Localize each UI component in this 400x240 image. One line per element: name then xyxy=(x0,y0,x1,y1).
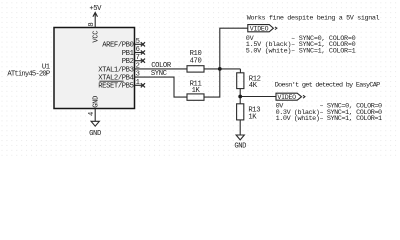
no-connect x pin 6 xyxy=(141,50,145,54)
svg-text:4: 4 xyxy=(88,112,96,116)
chevron after VIDEO (bottom) xyxy=(303,95,305,98)
wire R11 to node A riser xyxy=(204,69,220,97)
svg-text:8: 8 xyxy=(88,23,96,27)
pin 4 GND vertical pin wire xyxy=(94,109,96,122)
svg-text:XTAL1/PB3: XTAL1/PB3 xyxy=(98,66,133,74)
svg-text:Doesn't get detected by EasyCA: Doesn't get detected by EasyCAP xyxy=(275,81,380,89)
chevron after VIDEO (top) xyxy=(275,27,277,30)
wire node A up to VIDEO label xyxy=(220,28,248,69)
svg-text:GND: GND xyxy=(92,96,100,108)
IC U1 ATtiny45-20P body box xyxy=(54,28,135,109)
pin 6 PB1 xyxy=(135,52,143,54)
svg-text:PB2: PB2 xyxy=(122,58,134,66)
pin 7 PB2 xyxy=(135,60,143,62)
svg-text:7: 7 xyxy=(136,54,140,62)
wire R12 to node B xyxy=(239,89,241,97)
svg-text:VIDEO: VIDEO xyxy=(250,25,269,32)
svg-text:COLOR: COLOR xyxy=(151,62,172,70)
no-connect x pin 7 xyxy=(141,59,145,63)
wire SYNC net: pin 3 right then down xyxy=(135,77,188,97)
svg-text:5.0V (white)– SYNC=1, COLOR=1: 5.0V (white)– SYNC=1, COLOR=1 xyxy=(246,47,356,55)
ground symbol (IC) xyxy=(91,121,99,126)
svg-text:Works fine despite being a 5V: Works fine despite being a 5V signal xyxy=(247,15,380,23)
junction node A xyxy=(218,67,222,71)
pin 1 RESET/PB5 xyxy=(135,84,143,86)
pin 8 VCC vertical pin wire xyxy=(94,16,96,28)
wire R13 to ground xyxy=(239,120,241,135)
svg-text:1: 1 xyxy=(136,79,140,87)
resistor R11 body xyxy=(187,94,204,100)
resistor R10 body xyxy=(187,66,204,72)
wire R10 to node A and on to R12 xyxy=(204,68,240,70)
svg-text:VIDEO: VIDEO xyxy=(277,94,296,101)
svg-text:1.0V (white)– SYNC=1, COLOR=1: 1.0V (white)– SYNC=1, COLOR=1 xyxy=(276,115,382,123)
svg-text:SYNC: SYNC xyxy=(151,70,168,78)
svg-text:1K: 1K xyxy=(248,113,257,121)
svg-text:1K: 1K xyxy=(192,87,201,95)
wire stub into R12 xyxy=(239,69,241,73)
wire stub node B into R13 xyxy=(239,97,241,104)
no-connect x pin 1 xyxy=(141,83,145,87)
ground symbol (R13) xyxy=(236,135,244,140)
svg-text:6: 6 xyxy=(136,46,140,54)
no-connect x pin 5 xyxy=(141,42,145,46)
wire node B to lower VIDEO label xyxy=(240,96,276,98)
svg-text:GND: GND xyxy=(89,130,101,138)
hierarchical label VIDEO (top) xyxy=(248,25,274,32)
svg-text:RESET/PB5: RESET/PB5 xyxy=(98,83,133,91)
svg-text:4K: 4K xyxy=(249,82,258,90)
svg-text:+5V: +5V xyxy=(89,5,102,13)
pin 5 AREF/PB0 xyxy=(135,43,143,45)
svg-text:ATtiny45-20P: ATtiny45-20P xyxy=(7,71,49,79)
wire COLOR net: pin 2 to R10 xyxy=(135,68,188,70)
overline on RESET xyxy=(99,80,123,82)
svg-text:VCC: VCC xyxy=(92,30,100,43)
resistor R12 body xyxy=(237,73,244,89)
svg-text:PB1: PB1 xyxy=(122,50,134,58)
svg-text:5: 5 xyxy=(136,38,140,46)
resistor R13 body xyxy=(237,104,244,120)
+5V power symbol xyxy=(93,12,98,16)
svg-text:3: 3 xyxy=(136,71,140,79)
svg-text:2: 2 xyxy=(136,62,140,70)
svg-text:GND: GND xyxy=(234,143,246,151)
svg-text:AREF/PB0: AREF/PB0 xyxy=(102,42,133,50)
svg-text:470: 470 xyxy=(190,57,202,65)
hierarchical label VIDEO (bottom) xyxy=(276,93,302,100)
junction node B xyxy=(238,95,242,99)
